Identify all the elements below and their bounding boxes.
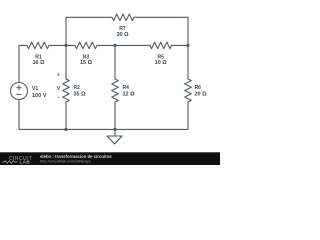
wire V1 bottom to bottom rail — [19, 100, 188, 130]
resistor R2 — [63, 79, 70, 102]
resistor R7 — [112, 14, 134, 21]
wire R3 to node B — [97, 44, 150, 46]
wire node B down — [114, 45, 116, 79]
svg-text:R6: R6 — [195, 85, 202, 91]
svg-text:http://circuitlab.com/c64pqys: http://circuitlab.com/c64pqys — [40, 159, 90, 164]
node A junction — [64, 44, 67, 47]
node C junction — [186, 44, 189, 47]
bottom rail junction at ground — [113, 128, 116, 131]
ground — [107, 129, 122, 144]
svg-text:30 Ω: 30 Ω — [116, 32, 129, 38]
wire R4 to bottom rail — [114, 102, 116, 129]
svg-text:+: + — [57, 72, 60, 78]
wire node A down — [65, 45, 67, 79]
svg-text:V1: V1 — [32, 86, 38, 92]
watermark bar — [0, 152, 220, 165]
node B junction — [113, 44, 116, 47]
svg-text:R2: R2 — [74, 85, 81, 91]
wire top rail — [66, 17, 188, 45]
wire R5 to right rail — [172, 44, 189, 46]
svg-text:16 Ω: 16 Ω — [32, 60, 45, 66]
svg-text:20 Ω: 20 Ω — [195, 92, 208, 98]
voltage source V1 — [11, 83, 28, 100]
wire right rail down — [187, 45, 189, 79]
V1 plus/minus marks — [16, 85, 21, 94]
svg-text:10 Ω: 10 Ω — [155, 60, 168, 66]
resistor R1 — [27, 42, 49, 49]
CircuitLab logo zigzag — [2, 161, 18, 164]
wire R1 to node A — [49, 44, 75, 46]
wire middle rail left — [19, 45, 27, 82]
svg-text:100 V: 100 V — [32, 93, 47, 99]
resistor R5 — [150, 42, 172, 49]
svg-text:15 Ω: 15 Ω — [80, 60, 93, 66]
svg-text:LAB: LAB — [20, 159, 31, 164]
wire R6 to bottom rail — [187, 102, 189, 129]
resistor R6 — [185, 79, 192, 102]
bottom rail junction at R2 — [64, 128, 67, 131]
svg-text:35 Ω: 35 Ω — [74, 92, 87, 98]
svg-text:R4: R4 — [123, 85, 130, 91]
svg-text:R7: R7 — [119, 26, 126, 32]
resistor R4 — [112, 79, 119, 102]
resistor R3 — [75, 42, 97, 49]
wire R2 to bottom rail — [65, 102, 67, 129]
svg-text:12 Ω: 12 Ω — [123, 92, 136, 98]
